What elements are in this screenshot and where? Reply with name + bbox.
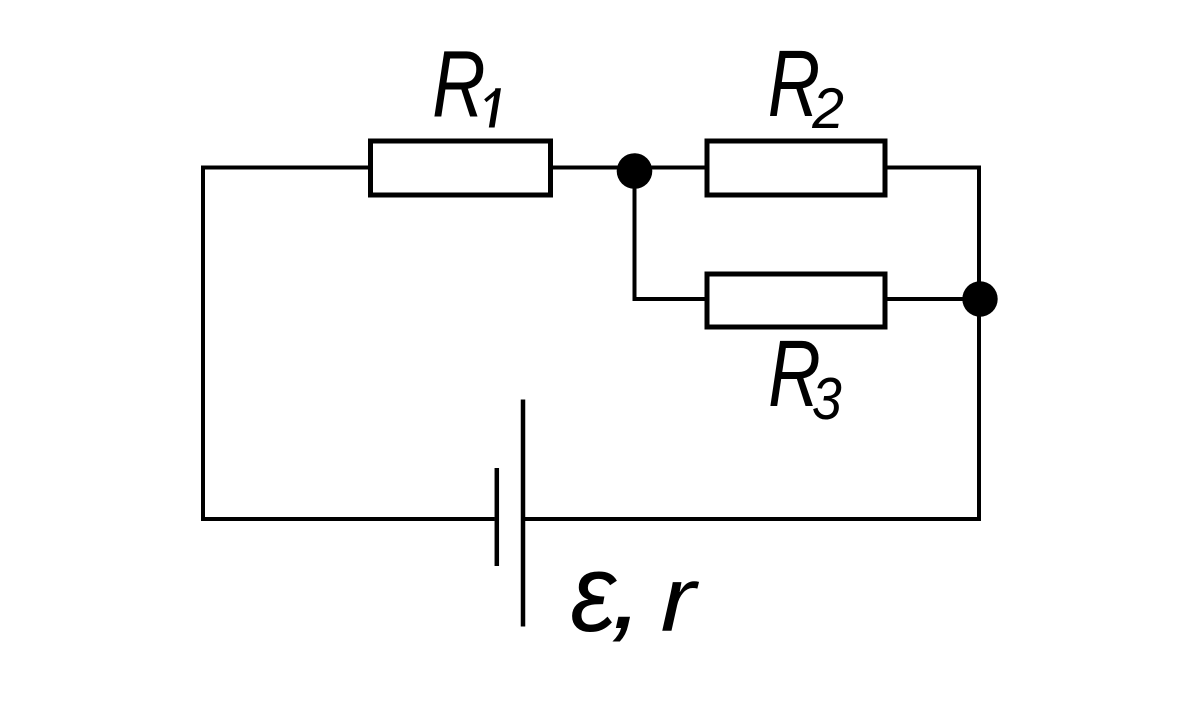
svg-text:r: r bbox=[661, 548, 700, 650]
node A (junction dot) bbox=[617, 153, 653, 189]
resistor R2 bbox=[707, 141, 885, 195]
battery cell: short plate bbox=[495, 468, 500, 566]
node B (junction dot) bbox=[962, 281, 997, 316]
resistor R1 bbox=[371, 141, 551, 195]
label R1: subscript 1 (flag) bbox=[485, 91, 497, 101]
svg-text:3: 3 bbox=[812, 366, 842, 432]
wire: node A to R2 left terminal bbox=[634, 166, 705, 170]
resistor R3 bbox=[707, 274, 885, 327]
wire: R1 right terminal to node A bbox=[553, 166, 634, 170]
wire: R3 right terminal to node B bbox=[887, 297, 980, 301]
wire: top-left + left side + bottom-left segment to battery bbox=[203, 168, 495, 520]
wire: node A down and right to R3 left terminal bbox=[635, 169, 706, 299]
battery cell: long plate bbox=[521, 400, 526, 627]
svg-text:R: R bbox=[432, 32, 485, 138]
svg-text:,: , bbox=[610, 534, 644, 651]
label R1: subscript 1 (stem) bbox=[489, 88, 501, 127]
wire: R2 right terminal, right side down, bottom-right to battery bbox=[525, 168, 979, 520]
svg-text:2: 2 bbox=[811, 77, 844, 141]
